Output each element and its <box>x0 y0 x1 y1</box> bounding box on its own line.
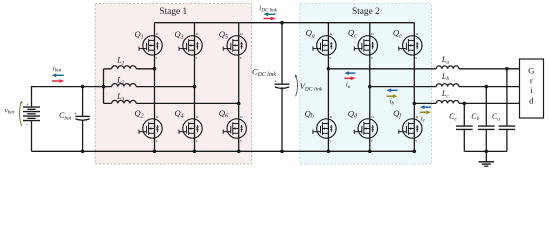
VDClink arrow <box>296 76 298 96</box>
wire battery bottom <box>31 121 33 152</box>
svg-text:+: + <box>26 103 29 108</box>
transistor Q2 <box>139 115 162 143</box>
wire stage2 leg e <box>413 23 415 152</box>
node legc bottom <box>368 150 372 154</box>
wire stage1 leg 3 <box>238 23 240 152</box>
grid box <box>520 59 544 118</box>
transistor Qe <box>399 32 422 60</box>
capacitor Cbat <box>75 116 90 120</box>
svg-text:ibat: ibat <box>53 64 62 73</box>
node L3 leg3 <box>237 102 241 106</box>
node leg1 bottom <box>153 150 157 154</box>
wire phase c <box>414 102 519 104</box>
wire stage2 leg a <box>327 23 329 152</box>
wire capacitor common <box>464 150 507 152</box>
ib arrow olive <box>387 94 398 98</box>
wire stage1 leg 1 <box>154 23 156 152</box>
stage 1 region <box>95 3 251 164</box>
wire stage1 leg 2 <box>194 23 196 152</box>
wire Cb branch <box>485 87 487 152</box>
ic arrow blue <box>420 105 431 109</box>
svg-text:G: G <box>528 66 535 76</box>
node ground <box>485 150 489 154</box>
transistor Q3 <box>179 32 202 60</box>
transistor Qd <box>354 115 377 143</box>
node DClink bottom <box>280 150 284 154</box>
stage 2 region <box>300 3 432 164</box>
svg-text:vbat: vbat <box>5 106 15 115</box>
ground <box>479 151 494 166</box>
svg-text:+: + <box>74 111 77 116</box>
transistor Qc <box>354 32 377 60</box>
node phase c <box>413 102 417 106</box>
capacitor Cb <box>478 126 495 129</box>
wire battery top to node <box>32 87 104 107</box>
transistor Qa <box>313 32 336 60</box>
transistor Q1 <box>139 32 162 60</box>
capacitor Cc <box>456 126 473 129</box>
wire L3 leads <box>104 102 239 104</box>
ibat arrow red <box>52 79 64 83</box>
svg-text:La: La <box>441 55 449 66</box>
node L1 leg1 <box>153 67 157 71</box>
node phase a <box>327 67 331 71</box>
transistor Q5 <box>223 32 246 60</box>
wire Cbat branch <box>82 87 84 152</box>
node Cbat top <box>81 85 85 89</box>
vbat arrow <box>19 103 21 126</box>
svg-text:Cc: Cc <box>449 112 457 123</box>
inductor L2 <box>112 84 136 87</box>
wire Cc branch <box>463 103 465 151</box>
node Cb top <box>485 85 489 89</box>
ic arrow olive <box>420 110 431 114</box>
transistor Qf <box>399 115 422 143</box>
inductor La <box>436 66 459 69</box>
inductor L1 <box>112 66 136 69</box>
wire phase a <box>328 68 519 70</box>
transistor Qb <box>313 115 336 143</box>
wire phase b <box>370 86 520 88</box>
wire Ca branch <box>506 69 508 152</box>
svg-text:+: + <box>274 78 277 83</box>
wire L1 leads <box>104 68 155 70</box>
iDClink arrow red <box>264 17 276 21</box>
svg-text:CDC link: CDC link <box>252 67 276 79</box>
transistor Q4 <box>179 115 202 143</box>
node DClink top <box>280 21 284 25</box>
wire stage2 leg c <box>369 23 371 152</box>
inductor L3 <box>112 100 136 103</box>
ib arrow blue <box>387 88 398 92</box>
battery VBAT <box>23 107 40 121</box>
svg-text:d: d <box>529 95 534 105</box>
node leg2 bottom <box>193 150 197 154</box>
transistor Q6 <box>223 115 246 143</box>
node lege bottom <box>413 150 417 154</box>
inductor Lb <box>436 84 459 87</box>
node Ca top <box>505 67 509 71</box>
iDClink arrow blue <box>264 12 276 16</box>
wire bottom DC bus <box>32 150 415 152</box>
capacitor Ca <box>499 126 516 129</box>
svg-text:Stage 1: Stage 1 <box>159 7 187 17</box>
wire top DC bus <box>155 22 415 24</box>
wire L2 leads <box>104 86 195 88</box>
svg-text:Cb: Cb <box>471 112 479 122</box>
svg-text:-: - <box>26 122 28 128</box>
node leg3 bottom <box>237 150 241 154</box>
svg-text:Ca: Ca <box>492 112 500 123</box>
node Cc top <box>463 102 467 106</box>
node lega bottom <box>327 150 331 154</box>
svg-text:r: r <box>530 75 533 85</box>
ia arrow red <box>344 76 355 80</box>
node Cbat bottom <box>81 150 85 154</box>
wire CDClink branch <box>281 23 283 152</box>
node inductor bus <box>102 85 106 89</box>
node L2 leg2 <box>193 85 197 89</box>
svg-text:Stage 2: Stage 2 <box>352 7 380 17</box>
capacitor CDClink <box>275 84 290 88</box>
node phase b <box>368 85 372 89</box>
inductor Lc <box>436 101 459 104</box>
svg-text:Lc: Lc <box>441 89 449 100</box>
ibat arrow blue <box>52 73 64 77</box>
svg-text:iDC link: iDC link <box>259 4 277 13</box>
svg-text:Lb: Lb <box>441 72 449 82</box>
wire inductor input bus <box>103 69 105 104</box>
ia arrow blue <box>344 71 355 75</box>
svg-text:Cbat: Cbat <box>59 111 72 122</box>
